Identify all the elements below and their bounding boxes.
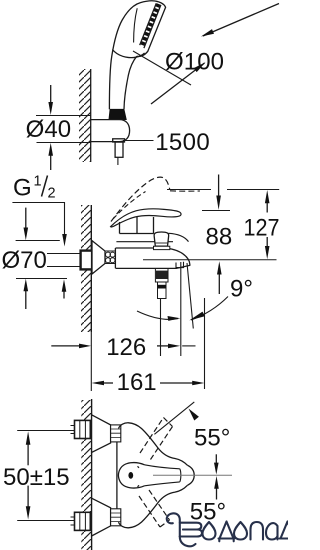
knurled adjuster under body [155, 269, 168, 283]
svg-text:1: 1 [34, 174, 42, 190]
Ø70 down arrow [25, 208, 27, 228]
letter d2 (triangle cut) [280, 522, 295, 539]
upper union pipe stubs [71, 426, 75, 434]
letter o (drop) [203, 522, 216, 540]
shower head outline [109, 1, 165, 109]
svg-text:Ø40: Ø40 [26, 116, 72, 143]
lower union nut [75, 512, 91, 530]
svg-text:Ø70: Ø70 [2, 247, 47, 274]
dim Ø70 ext lines [16, 241, 67, 279]
Ø40 down arrow [50, 85, 52, 103]
svg-text:55°: 55° [194, 424, 230, 451]
upper escutcheon cone [92, 415, 111, 453]
dim 161 left arrow [104, 382, 114, 384]
lower thread block [111, 509, 121, 526]
dashed swivel union upper [140, 418, 173, 460]
wall line (side view) [90, 205, 92, 332]
svg-text:127: 127 [244, 214, 280, 241]
ext line right [204, 298, 206, 389]
diverter knob on body [154, 232, 169, 246]
svg-text:Ø100: Ø100 [165, 49, 224, 76]
upper thread block [111, 425, 121, 442]
9deg arc [137, 311, 178, 319]
centerline extension right [143, 259, 277, 261]
dim 126 right arrow [157, 345, 169, 347]
lever inner cap [180, 469, 181, 482]
face plane extension line [133, 51, 191, 85]
hose fitting flange [113, 139, 125, 142]
arrowhead Ø100 lower [194, 62, 206, 72]
letter d (triangle) [219, 522, 235, 542]
wall hatch (side view) [81, 205, 91, 332]
body mounting face line [116, 442, 118, 509]
spout aerator [176, 262, 184, 268]
wall hatch (top view) [79, 69, 91, 162]
dim 127 arrows [266, 203, 268, 246]
upper angle down arrow [215, 454, 217, 463]
Ø40 up arrow [50, 156, 52, 171]
wall plane extension line down [90, 332, 92, 391]
svg-text:88: 88 [206, 223, 233, 250]
lever grip lines [145, 465, 180, 486]
top ref line y189 [167, 189, 279, 191]
handle/head joint seam [112, 50, 144, 58]
dim Ø100 lower leader [151, 63, 205, 104]
Ø70 up arrow left [25, 291, 27, 309]
lever knob oval [118, 463, 144, 488]
wall bracket bar [91, 120, 130, 142]
lever handle (solid) [111, 209, 182, 227]
upper 55 arrowhead [189, 409, 199, 421]
dashed swivel union lower [139, 490, 170, 527]
9deg arrowheads [168, 316, 181, 321]
50±15 down arrow [27, 486, 29, 507]
arrowhead Ø100 upper [201, 29, 214, 36]
dim Ø40 ext lines [36, 116, 91, 143]
shower head face nozzles (dark band) [142, 4, 159, 47]
svg-text:9°: 9° [230, 276, 253, 303]
TOP-SECTION [26, 1, 279, 170]
G1/2 arrowhead [62, 234, 67, 247]
letter a [266, 523, 278, 539]
50±15 up arrow [27, 445, 29, 466]
ext line stem [160, 299, 162, 356]
svg-text:1500: 1500 [155, 129, 210, 156]
lever neck [120, 217, 154, 234]
lever outer cap [187, 465, 194, 485]
9deg tilted line [187, 263, 193, 329]
svg-text:2: 2 [48, 186, 56, 202]
Ø70 up arrow right [63, 292, 65, 299]
hose stub line [117, 157, 119, 165]
shower head face band edges [140, 3, 161, 48]
1500 leader line [123, 140, 154, 142]
lever raised (dashed) [111, 177, 170, 221]
body dome top [120, 233, 189, 241]
hose fitting body [115, 142, 123, 157]
upper 55 leader line [154, 402, 194, 434]
dim Ø100 upper leader [203, 4, 279, 37]
dim 88 down arrow [218, 175, 220, 197]
letter p (arch) [251, 522, 264, 540]
faucet body (side) [114, 248, 116, 268]
supply pipe lines [47, 254, 81, 267]
BOTTOM-SECTION [3, 399, 294, 550]
body lower flare + lever bottom [119, 485, 188, 527]
lever-top ref line y210 [202, 210, 230, 212]
union nut (thick square) [81, 251, 93, 270]
escutcheon cone [92, 241, 105, 274]
svg-text:161: 161 [117, 369, 157, 396]
lever dot [128, 472, 133, 479]
handle right edge [124, 56, 137, 109]
9deg vertical line [180, 262, 182, 356]
shower head inner shell line [134, 8, 138, 42]
G1/2 leader line [12, 203, 64, 236]
lower escutcheon cone [92, 498, 111, 536]
wall hatch (bottom view) [81, 400, 91, 550]
letter V(B) [167, 513, 180, 536]
MID-SECTION [2, 174, 280, 397]
diverter stem [158, 282, 167, 299]
dim 126 stub [182, 345, 195, 347]
upper union nut [75, 420, 91, 438]
knob base flange [154, 246, 170, 249]
body upper flare + lever top [119, 423, 188, 465]
dim 88 up arrow [218, 274, 220, 294]
watermark Vodopad logo [167, 513, 294, 546]
wall line (bottom view) [91, 399, 93, 550]
threaded nipple circles [106, 252, 111, 257]
svg-text:126: 126 [106, 334, 146, 361]
svg-text:G: G [13, 175, 32, 202]
dim 126 left arrow [51, 345, 79, 347]
dim 161 right arrow [160, 382, 193, 384]
svg-text:50±15: 50±15 [3, 464, 70, 491]
lower union pipe stubs [71, 517, 75, 525]
lower angle up arrow [216, 489, 218, 500]
lever specks [138, 466, 140, 487]
black conical hose nut [109, 109, 126, 119]
wall line (top view) [90, 69, 92, 162]
letter o2 (drop) [234, 522, 247, 540]
dim 50±15 ext lines [17, 431, 74, 521]
centerline [153, 474, 232, 476]
